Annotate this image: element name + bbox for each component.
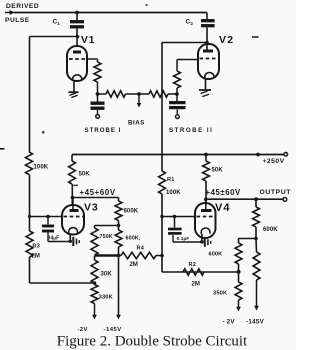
wire xyxy=(161,194,163,272)
wire cap to cathode xyxy=(173,241,202,243)
wire bias row left xyxy=(98,93,107,95)
V3 cathode xyxy=(69,228,78,234)
svg-text:50K: 50K xyxy=(79,172,91,178)
node 330K junction xyxy=(93,281,97,285)
node V1 plate junction xyxy=(76,35,80,39)
wire V2 grid xyxy=(177,59,198,61)
node C1 top junction xyxy=(75,11,79,15)
V2 grid (dashed) xyxy=(200,58,218,60)
node V4 plate xyxy=(204,197,208,201)
svg-text:+250V: +250V xyxy=(263,158,285,165)
svg-text:- 2V: - 2V xyxy=(223,319,236,326)
wire V2 plate to left drop xyxy=(162,42,207,44)
terminal +250V xyxy=(284,153,288,157)
tube V2 xyxy=(198,44,219,79)
resistor R3 2M xyxy=(26,231,33,257)
wire top bus from arrow to C2 xyxy=(14,12,207,14)
arrow -2V right xyxy=(236,307,241,312)
svg-text:R1: R1 xyxy=(167,177,175,183)
svg-text:DERIVED: DERIVED xyxy=(6,3,39,10)
svg-text:R2: R2 xyxy=(189,262,197,268)
V1 cathode lead xyxy=(73,81,75,92)
arrow -145V left xyxy=(116,315,121,320)
node V3 grid cap junction xyxy=(46,215,50,219)
tube V3 xyxy=(62,205,84,235)
capacitor V3 grid .04uF xyxy=(47,217,49,225)
wire xyxy=(29,175,31,232)
stray speck top xyxy=(145,4,147,6)
capacitor strobe I xyxy=(97,94,99,102)
wire to -2V arrow xyxy=(94,304,96,316)
capacitor V4 grid 0.1uF xyxy=(174,217,176,228)
wire xyxy=(255,227,257,239)
svg-text:PULSE: PULSE xyxy=(5,17,30,24)
wire bottom left xyxy=(29,257,31,283)
svg-text:V3: V3 xyxy=(84,202,98,214)
svg-text:-2V: -2V xyxy=(78,327,88,333)
node rail unused xyxy=(256,153,260,157)
node V4 grid cap junction xyxy=(173,215,177,219)
V1 plate xyxy=(73,51,81,54)
wire tap to 750K xyxy=(95,225,119,227)
capacitor C1 xyxy=(76,13,78,21)
wire xyxy=(126,93,150,95)
resistor V2 grid (unlabeled) xyxy=(176,88,178,94)
tube V4 xyxy=(195,203,216,238)
svg-text:STROBE I: STROBE I xyxy=(85,127,122,134)
resistor 50K V4 xyxy=(205,155,207,162)
V4 cathode lead xyxy=(201,234,203,242)
stray speck left mid xyxy=(42,131,45,134)
tick near +45 label xyxy=(74,184,79,186)
resistor bias left xyxy=(106,91,126,97)
node strobe I junction xyxy=(96,92,100,96)
ground V3 (right-facing) xyxy=(72,237,74,246)
V4 plate lead xyxy=(205,199,207,210)
V1 grid (dashed) xyxy=(69,58,87,60)
node V4 grid junction xyxy=(160,215,163,218)
V1 cathode xyxy=(73,75,82,81)
node 750K tap xyxy=(117,224,121,228)
wire bold tie 750K-30K xyxy=(95,254,119,256)
node strobe II junction xyxy=(175,92,179,96)
resistor R4 2M horizontal xyxy=(119,255,122,257)
svg-text:R4: R4 xyxy=(137,245,145,251)
wire +250V rail xyxy=(72,154,285,156)
arrow -2V left xyxy=(92,315,97,320)
svg-text:100K: 100K xyxy=(166,190,181,196)
svg-text:600K: 600K xyxy=(209,252,223,258)
svg-text:350K: 350K xyxy=(213,291,228,297)
wire V4 plate to output xyxy=(206,198,283,200)
resistor 600K c xyxy=(235,243,242,264)
resistor 330K xyxy=(91,285,98,304)
arrow -145V right xyxy=(254,306,259,311)
node bias junction xyxy=(137,92,141,96)
V4 grid (dashed) xyxy=(197,216,215,218)
wire to -145V arrow right xyxy=(256,280,258,306)
V3 grid (dashed) xyxy=(64,216,84,218)
wire cap to cathode xyxy=(48,241,70,243)
svg-text:R3: R3 xyxy=(33,244,41,250)
wire V2 plate drop vertical xyxy=(161,43,163,172)
resistor 750K xyxy=(91,228,98,255)
resistor V1 grid 1 (unlabeled) xyxy=(94,62,101,82)
wire V3 grid from left xyxy=(30,216,63,218)
stray mark right of V2 xyxy=(252,36,259,38)
node R2 junction xyxy=(237,270,241,274)
svg-text:Figure 2. Double Strobe Circui: Figure 2. Double Strobe Circuit xyxy=(57,334,248,350)
terminal OUTPUT xyxy=(283,198,287,202)
resistor 350K xyxy=(235,282,242,300)
node V3 grid junction xyxy=(28,215,31,218)
node V2 plate junction xyxy=(205,41,209,45)
svg-text:600K,: 600K, xyxy=(126,236,141,242)
capacitor strobe II xyxy=(176,94,178,101)
V2 cathode xyxy=(205,73,214,79)
wire xyxy=(97,82,99,94)
resistor 30K xyxy=(91,260,98,283)
svg-text:+45±60V: +45±60V xyxy=(206,188,241,197)
node bold tie xyxy=(117,254,121,258)
svg-text:V4: V4 xyxy=(215,202,230,214)
V2 cathode lead xyxy=(205,79,207,90)
node output 600K tap xyxy=(254,197,258,201)
svg-text:STROBE II: STROBE II xyxy=(169,127,213,134)
svg-text:-145V: -145V xyxy=(104,327,122,333)
node output divider xyxy=(254,237,258,241)
wire 50K to V3 plate xyxy=(71,184,73,205)
wire to -2V arrow right xyxy=(238,300,240,308)
svg-text:0.1μF: 0.1μF xyxy=(177,236,190,242)
node R4 to V4 grid chain xyxy=(160,254,164,258)
ground V2 xyxy=(199,89,211,91)
resistor 600K output load xyxy=(255,199,257,207)
wire V3 plate to divider xyxy=(72,197,118,199)
node V3 plate xyxy=(71,196,75,200)
svg-text:-145V: -145V xyxy=(246,319,265,326)
wire 50K to V4 plate xyxy=(205,181,207,205)
ground V4 (right-facing) xyxy=(204,238,206,247)
svg-text:+45+60V: +45+60V xyxy=(80,188,116,197)
V3 cathode lead xyxy=(69,233,71,241)
wire xyxy=(94,256,96,261)
svg-text:30K: 30K xyxy=(101,272,113,278)
svg-text:2M: 2M xyxy=(32,253,41,259)
svg-text:V1: V1 xyxy=(81,35,95,46)
V4 plate xyxy=(201,209,212,212)
svg-text:50K: 50K xyxy=(212,168,224,174)
svg-text:100K: 100K xyxy=(34,165,49,171)
resistor unlabeled right xyxy=(255,239,258,253)
tube V1 xyxy=(67,46,87,81)
capacitor C2 xyxy=(206,13,208,20)
svg-text:2M: 2M xyxy=(192,282,201,288)
resistor R2 2M horizontal xyxy=(162,271,239,273)
wire xyxy=(238,264,240,282)
svg-text:BIAS: BIAS xyxy=(128,119,145,126)
resistor 600K a xyxy=(118,198,120,202)
wire V4 grid from R1 chain xyxy=(162,216,195,218)
BIAS arrow xyxy=(138,94,140,104)
svg-text:330K: 330K xyxy=(99,294,114,300)
wire xyxy=(168,93,177,95)
wire 600K b down to -145V arrow xyxy=(118,247,120,315)
V2 plate xyxy=(203,50,213,53)
resistor bias right xyxy=(149,91,168,97)
wire tie to 600K c xyxy=(239,238,257,240)
svg-text:OUTPUT: OUTPUT xyxy=(260,189,292,196)
resistor 100K left xyxy=(26,152,33,175)
wire V1 plate to left drop xyxy=(30,36,78,38)
resistor 600K b xyxy=(115,230,122,247)
svg-text:750K: 750K xyxy=(100,234,113,240)
svg-text:2M: 2M xyxy=(130,262,139,268)
svg-text:600K: 600K xyxy=(124,209,139,215)
wire V1 grid to grid resistor xyxy=(87,58,98,60)
wire xyxy=(118,221,120,231)
resistor 50K V3 xyxy=(71,155,73,162)
ground V1 xyxy=(69,91,79,93)
V3 plate lead xyxy=(72,198,74,211)
wire left vertical from V1 plate node xyxy=(29,37,31,153)
node rail 50K V4 xyxy=(204,153,208,157)
V3 plate xyxy=(70,209,79,212)
resistor R1 100K xyxy=(159,171,166,194)
left edge stray mark xyxy=(0,148,5,150)
svg-text:600K: 600K xyxy=(263,227,278,233)
V4 cathode xyxy=(201,228,210,234)
input arrow xyxy=(5,12,10,14)
